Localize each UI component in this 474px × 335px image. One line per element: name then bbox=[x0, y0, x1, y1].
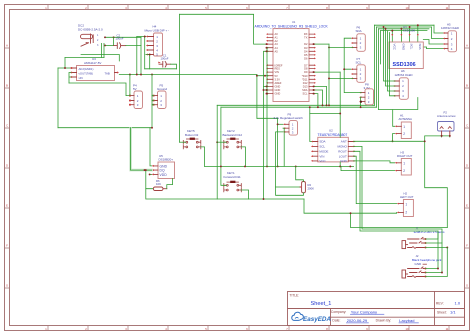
resistor R6 body bbox=[153, 187, 163, 191]
svg-text:GND: GND bbox=[415, 262, 423, 266]
svg-text:E: E bbox=[6, 204, 8, 208]
svg-text:ANT: ANT bbox=[341, 140, 347, 144]
svg-text:AREF: AREF bbox=[275, 81, 282, 85]
title block outline bbox=[288, 292, 465, 326]
junction A3 bbox=[266, 43, 268, 45]
junctions on y166.4 bbox=[220, 165, 222, 167]
junction A5 bbox=[266, 50, 268, 52]
svg-text:Button D2: Button D2 bbox=[185, 133, 199, 137]
svg-text:Forward D11: Forward D11 bbox=[224, 175, 241, 179]
jack J1 symbol bbox=[402, 237, 426, 248]
wire bottom y127.7 bbox=[58, 127, 152, 129]
svg-text:3.3V: 3.3V bbox=[364, 86, 370, 90]
wire y68.8 bbox=[145, 68, 177, 70]
border column ticks top bbox=[48, 5, 449, 10]
regulator U3 body bbox=[77, 66, 115, 81]
capacitor C2 symbol bbox=[114, 43, 126, 49]
svg-text:VDD: VDD bbox=[160, 173, 168, 177]
svg-text:D6: D6 bbox=[304, 57, 308, 61]
wire U5 GND up bbox=[150, 128, 152, 166]
junction scl rail bbox=[317, 106, 319, 108]
wire P9 pin2 down bbox=[283, 128, 284, 166]
wire H4 pin1 left bbox=[137, 36, 146, 38]
wire U3 bottom loop to P4 bbox=[69, 83, 130, 96]
svg-text:SCL: SCL bbox=[356, 61, 362, 65]
junction at U3 top loop bbox=[64, 67, 66, 69]
svg-text:A4: A4 bbox=[275, 46, 279, 50]
header H3 body bbox=[401, 159, 411, 176]
svg-text:RES: RES bbox=[275, 67, 281, 71]
header H3 pin numbers bbox=[403, 162, 405, 174]
wire P2 pin drops bbox=[442, 136, 450, 137]
shield U1 right pins bbox=[309, 34, 314, 94]
svg-text:U2: U2 bbox=[329, 128, 333, 132]
svg-text:A: A bbox=[466, 44, 468, 48]
wire U5 DQ highlight bbox=[131, 129, 152, 171]
svg-text:D3: D3 bbox=[304, 46, 308, 50]
junction A5 at bottom wire bbox=[263, 198, 265, 200]
junction 5V bbox=[264, 75, 266, 77]
header H4 body bbox=[154, 33, 163, 56]
svg-text:SCL: SCL bbox=[319, 145, 325, 149]
wire 5V pin left bbox=[257, 75, 268, 119]
resistor R2 body bbox=[302, 182, 306, 193]
wire top horizontal y14.3 bbox=[180, 14, 269, 44]
header H2 pin numbers bbox=[405, 203, 407, 215]
wire scl rail y107.2 bbox=[221, 106, 377, 108]
header P8 pin numbers bbox=[368, 91, 370, 104]
junction A4 bbox=[266, 47, 268, 49]
svg-text:C: C bbox=[466, 124, 468, 128]
svg-text:128X32 OLED: 128X32 OLED bbox=[441, 26, 459, 30]
C1 plus arrow bbox=[158, 62, 161, 64]
header P9 pins bbox=[285, 124, 289, 132]
push button KEY2 symbol bbox=[224, 139, 242, 149]
push button KEY1 symbol bbox=[224, 182, 242, 192]
wire U2 GND to H3 pin1 bbox=[354, 161, 395, 163]
U2 left pin names bbox=[319, 140, 328, 163]
wire right tall vertical bbox=[425, 141, 448, 227]
svg-text:D9: D9 bbox=[304, 70, 308, 74]
wire R2 bottom loop bbox=[276, 187, 304, 195]
U3 pin dots bbox=[71, 67, 73, 69]
wire DC2 bottom pins down bbox=[102, 43, 105, 57]
shield U1 left pins bbox=[268, 34, 273, 94]
wire D2 right bbox=[314, 43, 329, 45]
wire bus to H5 pin1 bbox=[434, 25, 445, 33]
svg-text:2: 2 bbox=[403, 132, 405, 136]
wire H1 pin2 down bbox=[393, 134, 395, 142]
wire R2 top hook bbox=[296, 166, 304, 181]
svg-text:A5: A5 bbox=[275, 49, 279, 53]
shield U1 left pin arrows bbox=[266, 33, 268, 94]
U5 pin names bbox=[160, 164, 168, 177]
EasyEDA logo cloud bbox=[292, 312, 304, 320]
wire sda rail y105.3 bbox=[217, 104, 374, 106]
wire C1 right to loop bbox=[171, 64, 177, 69]
J2 contact dots bbox=[425, 268, 427, 278]
header P4 body bbox=[134, 91, 143, 109]
svg-text:200K: 200K bbox=[308, 186, 315, 190]
wire A5 down long bbox=[264, 51, 269, 199]
svg-text:A: A bbox=[6, 44, 8, 48]
wire KEY5 right down bbox=[201, 147, 205, 167]
OLED driver U4 body bbox=[389, 42, 423, 69]
svg-text:D8: D8 bbox=[304, 67, 308, 71]
underline date bbox=[346, 322, 368, 324]
junction bbox=[104, 36, 106, 38]
border row letters bbox=[6, 44, 468, 288]
wire GND1 pin left bbox=[264, 85, 269, 87]
svg-text:RIGHT OUT: RIGHT OUT bbox=[397, 154, 413, 158]
wire y113.5 to x340 vertical bbox=[310, 72, 340, 166]
header P6 pin numbers bbox=[360, 36, 362, 49]
connector DC2 pin marks bbox=[97, 34, 99, 47]
svg-text:Date:: Date: bbox=[332, 319, 340, 323]
header H5 body bbox=[448, 31, 457, 52]
wire bus top 4 lines bbox=[375, 25, 435, 30]
svg-text:5V: 5V bbox=[275, 74, 278, 78]
wire U2 SDA feed bbox=[310, 107, 312, 141]
svg-text:1: 1 bbox=[403, 162, 405, 166]
border row ticks right bbox=[465, 48, 470, 288]
header H1 pin numbers bbox=[403, 125, 405, 136]
svg-text:1/1: 1/1 bbox=[450, 310, 456, 315]
svg-text:VCC: VCC bbox=[319, 159, 326, 163]
header P4 pins bbox=[130, 96, 134, 105]
wire vertical x144.7 bbox=[144, 37, 146, 69]
regulator U3 pins bbox=[71, 68, 118, 77]
svg-text:*D10: *D10 bbox=[302, 74, 308, 78]
radio module U2 body bbox=[318, 137, 349, 162]
wire P4 pin1 up bbox=[129, 75, 131, 96]
header P7 body bbox=[357, 65, 366, 83]
U2 right pin names bbox=[337, 140, 347, 163]
svg-text:A1: A1 bbox=[275, 36, 279, 40]
header P5 pins bbox=[154, 96, 158, 105]
svg-text:TITLE:: TITLE: bbox=[290, 294, 300, 298]
svg-text:MONO: MONO bbox=[337, 145, 347, 149]
P2 pins down bbox=[442, 131, 450, 135]
svg-text:D13: D13 bbox=[303, 85, 308, 89]
wire U3 left feed bbox=[58, 67, 71, 69]
svg-text:Company:: Company: bbox=[331, 310, 347, 314]
svg-text:ANTENNA: ANTENNA bbox=[399, 117, 412, 121]
svg-text:A3: A3 bbox=[275, 42, 279, 46]
svg-text:VIN: VIN bbox=[319, 154, 324, 158]
wire KEY1 left up bbox=[221, 107, 226, 185]
shield U1 right pin names bbox=[302, 32, 308, 96]
svg-text:SDA: SDA bbox=[356, 29, 362, 33]
header H5 pin numbers bbox=[451, 32, 453, 51]
header H1 body bbox=[401, 122, 411, 139]
svg-text:Sheet:: Sheet: bbox=[437, 311, 447, 315]
junction bbox=[151, 127, 153, 129]
wire x217 vertical bbox=[216, 105, 218, 199]
svg-text:SCL: SCL bbox=[302, 92, 308, 96]
svg-text:2020-06-29: 2020-06-29 bbox=[347, 318, 368, 323]
junction bbox=[113, 36, 115, 38]
connector DC2 barrel jack symbol bbox=[81, 34, 94, 46]
wire KEY5 left feed bbox=[180, 141, 186, 143]
svg-text:Sheet_1: Sheet_1 bbox=[311, 301, 332, 307]
svg-text:2: 2 bbox=[403, 169, 405, 173]
header P7 pin numbers bbox=[360, 67, 362, 80]
junctions H6 bus taps bbox=[383, 26, 385, 28]
svg-text:GND: GND bbox=[275, 88, 281, 92]
wire C2 to right bbox=[126, 45, 141, 47]
svg-text:GND: GND bbox=[340, 159, 348, 163]
svg-text:D2: D2 bbox=[304, 42, 308, 46]
wire P9 pin1 feed bbox=[277, 118, 279, 166]
svg-text:LOUT: LOUT bbox=[339, 154, 347, 158]
svg-text:10K: 10K bbox=[156, 182, 161, 186]
R2 left pin arrow bbox=[300, 186, 302, 188]
wire D13 right down bbox=[314, 86, 327, 105]
J1 contact dots bbox=[425, 238, 427, 249]
svg-text:Micro USB DIP + -: Micro USB DIP + - bbox=[145, 28, 170, 32]
svg-text:SDA: SDA bbox=[319, 140, 325, 144]
svg-text:DS18B20+: DS18B20+ bbox=[159, 157, 174, 161]
svg-text:D4: D4 bbox=[304, 49, 308, 53]
wire P8 pin2 down to rail bbox=[360, 97, 363, 107]
svg-text:Lacybad: Lacybad bbox=[399, 318, 414, 323]
svg-text:ARDUINO_TO_SHIELDUNO_R3_SHIELD: ARDUINO_TO_SHIELDUNO_R3_SHIELD_LOCK bbox=[255, 24, 329, 28]
svg-text:1: 1 bbox=[405, 203, 407, 207]
KEY2 button cap bbox=[230, 138, 235, 140]
wire U5 DQ left bbox=[131, 169, 152, 171]
svg-text:SDA: SDA bbox=[302, 88, 308, 92]
wire U4 right to H5 pin3 bbox=[423, 40, 445, 45]
svg-text:3.3V: 3.3V bbox=[275, 77, 281, 81]
regulator U3 pin names bbox=[79, 67, 110, 80]
svg-text:ADJ(GND1): ADJ(GND1) bbox=[79, 67, 94, 71]
header P7 pins bbox=[353, 69, 357, 78]
wire J1 sleeve to bundle bbox=[426, 247, 448, 249]
wire KEY1 right down bbox=[241, 190, 248, 199]
svg-text:DC-005B-2.5A-2.0: DC-005B-2.5A-2.0 bbox=[78, 27, 103, 31]
wire SDA right down bbox=[314, 90, 323, 105]
svg-text:B: B bbox=[466, 84, 468, 88]
svg-text:vOUT(TAB): vOUT(TAB) bbox=[79, 72, 93, 76]
wire J2 sleeve bbox=[426, 248, 448, 277]
wire H6 bottom loop to H1 pin1 bbox=[379, 98, 418, 127]
wire P6 pin3 from x329 bbox=[329, 46, 353, 48]
border column ticks bottom bbox=[48, 326, 449, 331]
wire H4 pin5 left bbox=[146, 55, 150, 69]
svg-text:REV:: REV: bbox=[436, 301, 444, 305]
wire U5 VDD left bbox=[150, 173, 152, 175]
svg-text:SSD1306: SSD1306 bbox=[403, 28, 415, 32]
svg-text:TAB: TAB bbox=[105, 72, 110, 76]
wire U4 right to H5 pin4 bbox=[423, 47, 445, 49]
header H4 pin numbers bbox=[156, 35, 158, 57]
svg-text:SSD1306: SSD1306 bbox=[393, 62, 416, 68]
wire U2 LOUT to H2 pin1 bbox=[354, 156, 397, 203]
junction bbox=[392, 140, 394, 142]
KEY1 button cap bbox=[230, 181, 235, 183]
svg-text:Antenna screw: Antenna screw bbox=[437, 114, 456, 118]
wire jack pin2 to C2 bbox=[105, 44, 114, 46]
jack J2 symbol bbox=[402, 267, 426, 278]
header P9 pin numbers bbox=[292, 123, 294, 135]
wire P9 pin3 down bbox=[276, 132, 283, 187]
header H5 pins bbox=[445, 33, 448, 49]
wire long vertical x179 from top bbox=[179, 14, 181, 142]
svg-text:100uF: 100uF bbox=[161, 57, 169, 61]
U2 left pins bbox=[313, 142, 318, 161]
svg-text:B: B bbox=[6, 84, 8, 88]
wire y54.5 stub bbox=[81, 55, 119, 62]
wire U2 ANT to antenna bbox=[354, 136, 450, 141]
svg-text:VCC: VCC bbox=[392, 44, 396, 51]
header P8 pins bbox=[361, 93, 365, 102]
wire A4 down long bbox=[267, 48, 268, 167]
header H3 pins bbox=[397, 163, 402, 171]
wire H6 feed verticals bbox=[384, 27, 396, 96]
wire vertical x136.8 bbox=[136, 37, 138, 75]
svg-text:AMS1117-5V: AMS1117-5V bbox=[84, 61, 101, 65]
wire y213 to H2 pin2 bbox=[304, 199, 397, 213]
wire H3 pin2 from mid rail bbox=[341, 166, 395, 170]
U2 right pins bbox=[348, 142, 353, 161]
svg-text:EasyEDA: EasyEDA bbox=[303, 316, 331, 323]
border row ticks left bbox=[5, 48, 10, 288]
svg-text:MODE: MODE bbox=[319, 149, 328, 153]
svg-text:GND: GND bbox=[275, 92, 281, 96]
antenna screw P2 body bbox=[438, 122, 455, 132]
wire GND pin left bbox=[264, 89, 269, 91]
underline company bbox=[350, 313, 384, 315]
header H4 pins bbox=[148, 37, 154, 55]
capacitor C1 symbol bbox=[159, 62, 171, 68]
temperature sensor U5 body bbox=[158, 162, 175, 179]
svg-text:LEFT OUT: LEFT OUT bbox=[400, 195, 414, 199]
header H2 pins bbox=[399, 204, 404, 213]
svg-text:G: G bbox=[466, 284, 468, 288]
P8 pin3 junction square bbox=[360, 101, 362, 103]
wire J2 tip bbox=[426, 231, 439, 269]
header P9 body bbox=[289, 121, 298, 136]
wire D9 right to x340 bbox=[314, 71, 340, 73]
wire x350.5 down to gnd return bbox=[351, 213, 448, 227]
svg-text:2: 2 bbox=[405, 211, 407, 215]
wire y118.3 to P9 bbox=[257, 117, 278, 119]
wire R6 right up to VDD bbox=[167, 179, 173, 189]
header H6 pin numbers bbox=[402, 79, 404, 98]
svg-text:SCL: SCL bbox=[410, 44, 414, 50]
header H6 body bbox=[399, 78, 408, 100]
svg-text:Backward D12: Backward D12 bbox=[223, 133, 243, 137]
wire P7 pin3 down to sda rail bbox=[329, 44, 353, 105]
svg-text:GND: GND bbox=[275, 85, 281, 89]
resistor R6 leads bbox=[163, 188, 167, 190]
junction sda rail bbox=[322, 104, 324, 106]
svg-text:1: 1 bbox=[403, 125, 405, 129]
junction bbox=[149, 54, 151, 56]
wire GND3 pin left bbox=[267, 93, 268, 95]
svg-text:C: C bbox=[6, 124, 8, 128]
wire KEY2 right down bbox=[241, 147, 245, 167]
wire P5 feed vertical x152 bbox=[151, 75, 153, 128]
junctions P2 bbox=[441, 135, 443, 137]
svg-text:E: E bbox=[466, 204, 468, 208]
shield U1 body bbox=[273, 29, 309, 102]
underline drawnby bbox=[399, 322, 419, 324]
svg-text:D: D bbox=[466, 164, 468, 168]
wire R2 left pin bbox=[276, 186, 300, 188]
U4 top pin arrows bbox=[391, 34, 418, 36]
wire P6 pin1 to P7 pin1 to P8 pin1 bbox=[344, 38, 361, 92]
KEY5 button cap bbox=[190, 138, 195, 140]
junction bbox=[144, 169, 146, 171]
U5 pins bbox=[154, 166, 158, 175]
wire KEY2 left feed from rail bbox=[217, 141, 226, 143]
svg-text:ROUT: ROUT bbox=[338, 149, 347, 153]
header H1 pins bbox=[397, 126, 402, 133]
push button KEY5 symbol bbox=[183, 139, 201, 149]
svg-text:VIN: VIN bbox=[275, 70, 279, 74]
svg-text:vIN: vIN bbox=[79, 76, 83, 80]
wire x130.6 down bbox=[130, 128, 132, 170]
svg-text:128X64 OLED: 128X64 OLED bbox=[395, 73, 413, 77]
header P8 body bbox=[365, 89, 374, 105]
shield U1 left pin names bbox=[275, 32, 283, 96]
svg-text:Drawn By:: Drawn By: bbox=[376, 319, 392, 323]
header P5 body bbox=[158, 91, 167, 109]
junctions on bus bbox=[391, 30, 393, 32]
header H6 pins bbox=[395, 81, 399, 96]
wire U3 pin2 pin3 link bbox=[69, 73, 71, 84]
wire DC2 out top bbox=[105, 36, 141, 38]
wire bottom loop start bbox=[146, 189, 304, 199]
wire bus to H5 pin2 bbox=[432, 27, 446, 39]
svg-text:RX: RX bbox=[304, 32, 308, 36]
wire bus left verticals down bbox=[375, 25, 381, 109]
wire J1 tip to bundle bbox=[354, 151, 438, 239]
wire main mid horizontal y166.4 bbox=[205, 165, 354, 167]
wire down to C2 bbox=[113, 37, 115, 45]
P2 inner contacts bbox=[440, 127, 451, 129]
svg-text:TEA5767/RDA5807: TEA5767/RDA5807 bbox=[318, 133, 348, 137]
junctions on y74.5 bbox=[129, 74, 131, 76]
svg-text:100uF: 100uF bbox=[116, 37, 124, 41]
svg-text:D5: D5 bbox=[304, 53, 308, 57]
svg-text:1.0: 1.0 bbox=[455, 300, 461, 305]
svg-text:D: D bbox=[6, 164, 8, 168]
junction bbox=[144, 36, 146, 38]
header P6 pins bbox=[353, 38, 357, 47]
wire U3 top loop bbox=[65, 57, 104, 59]
svg-text:D12: D12 bbox=[303, 81, 308, 85]
wire U4 top pins up to bus bbox=[392, 25, 418, 42]
wire J1 ring to bundle bbox=[354, 146, 442, 243]
wire vertical x141 bbox=[140, 37, 142, 74]
svg-text:GND: GND bbox=[401, 44, 405, 52]
svg-text:SDA: SDA bbox=[418, 44, 422, 50]
svg-text:U1: U1 bbox=[292, 20, 296, 24]
header P5 pin numbers bbox=[160, 94, 162, 107]
shield U1 right pin arrows bbox=[314, 33, 316, 94]
header P6 body bbox=[357, 34, 366, 52]
svg-text:TX: TX bbox=[304, 36, 308, 40]
svg-text:*D11: *D11 bbox=[302, 77, 308, 81]
wire SCL right down bbox=[314, 94, 318, 108]
wire R6 left lead up bbox=[146, 170, 154, 189]
wire main horizontal y74.5 bbox=[119, 74, 257, 76]
svg-text:G: G bbox=[6, 284, 8, 288]
svg-text:A0: A0 bbox=[275, 32, 279, 36]
